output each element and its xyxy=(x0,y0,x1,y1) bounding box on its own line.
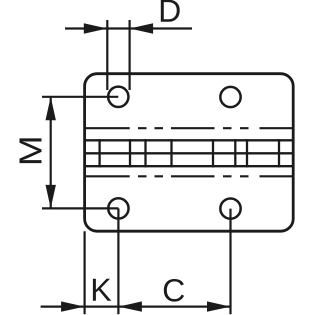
extension line D right tangent xyxy=(129,20,131,90)
dimension line M xyxy=(50,97,52,209)
knuckle dividers xyxy=(100,139,279,167)
hole top-right xyxy=(220,87,240,107)
arrow D right xyxy=(130,23,154,33)
arrow K right / C left xyxy=(118,301,141,311)
dimension line K/C xyxy=(41,306,231,308)
extension line K/C left (hole centre) xyxy=(117,208,119,314)
extension line K left (plate edge) xyxy=(83,231,85,314)
arrow M up xyxy=(46,97,56,121)
extension line D left tangent xyxy=(106,20,108,90)
extension line C right (hole centre) xyxy=(229,209,231,315)
plate outline xyxy=(85,74,294,232)
arrow K left xyxy=(61,301,85,311)
arrow C right xyxy=(207,301,231,311)
hole top-left xyxy=(108,87,128,107)
dimension line D xyxy=(65,27,192,29)
label M xyxy=(19,138,41,163)
arrow D left xyxy=(84,23,108,33)
centerline lower (dash-dot) xyxy=(86,175,293,177)
knuckle band middle line xyxy=(85,152,294,154)
label D xyxy=(161,0,180,22)
hole bottom-left xyxy=(108,198,128,218)
knuckle band bottom line xyxy=(85,165,294,167)
label C xyxy=(164,279,184,302)
centerline upper (dash-dot) xyxy=(86,127,293,129)
label K xyxy=(93,279,111,301)
extension line M top xyxy=(42,96,118,98)
knuckle band top line xyxy=(85,139,294,141)
arrow M down xyxy=(46,185,56,209)
hole bottom-right xyxy=(220,198,240,218)
extension line M bottom xyxy=(42,207,118,209)
